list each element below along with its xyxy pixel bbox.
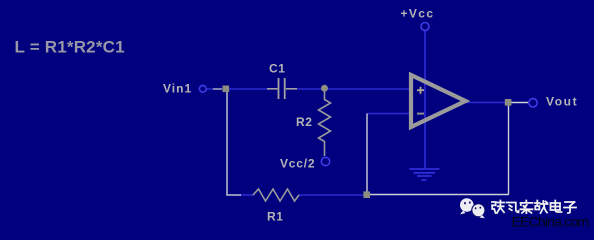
svg-text:Vout: Vout [546,95,578,109]
svg-text:Vin1: Vin1 [163,82,192,96]
svg-text:R1: R1 [267,210,284,224]
svg-text:Vcc/2: Vcc/2 [280,157,315,171]
svg-text:EEChina.com: EEChina.com [512,214,589,230]
svg-text:R2: R2 [296,115,313,129]
svg-text:L = R1*R2*C1: L = R1*R2*C1 [15,38,125,57]
svg-text:+Vcc: +Vcc [401,7,435,21]
svg-text:C1: C1 [269,62,286,76]
